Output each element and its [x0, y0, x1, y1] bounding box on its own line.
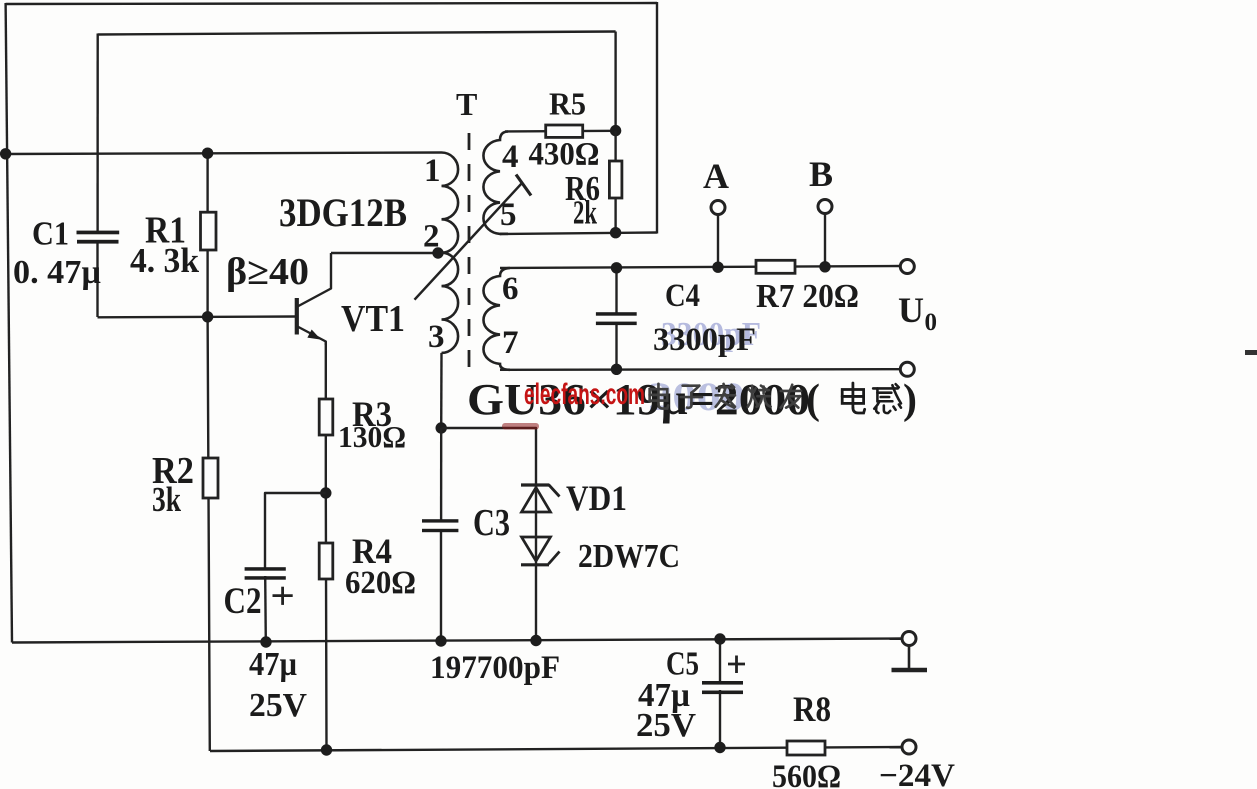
- node emitter/C2 junction: [320, 487, 331, 498]
- svg-text:R5: R5: [549, 86, 586, 122]
- adjustable core arrow: [415, 183, 522, 299]
- capacitor C5: [719, 639, 721, 682]
- svg-text:0: 0: [925, 309, 938, 336]
- terminal U0 bottom: [900, 362, 914, 376]
- label plus C2: [273, 594, 293, 597]
- transformer secondary winding pins 6-7: [483, 268, 510, 370]
- svg-text:25V: 25V: [636, 707, 696, 744]
- resistor R1: [201, 212, 217, 250]
- node R1 top: [202, 148, 213, 159]
- node C4 top: [611, 262, 622, 273]
- svg-text:0. 47µ: 0. 47µ: [13, 254, 101, 291]
- capacitor C2: [245, 567, 286, 571]
- wire outer loop right edge: [656, 2, 658, 234]
- capacitor C4: [615, 267, 617, 313]
- node C3 bottom: [435, 635, 446, 646]
- zener diode VD1 bottom: [522, 537, 551, 561]
- wire pin4 to R5 to inner frame: [505, 130, 616, 133]
- wire C3 branch: [440, 428, 443, 520]
- resistor R2: [203, 458, 218, 498]
- transformer core dashed line: [468, 133, 471, 371]
- svg-text:430Ω: 430Ω: [529, 137, 600, 173]
- svg-text:(: (: [806, 377, 820, 423]
- wire pin6 output top rail: [500, 266, 901, 268]
- svg-text:): ): [903, 377, 917, 423]
- node R6 bottom: [610, 227, 621, 238]
- svg-text:C1: C1: [32, 216, 69, 253]
- svg-text:4. 3k: 4. 3k: [130, 241, 200, 280]
- node R4 bottom: [321, 744, 332, 755]
- svg-text:A: A: [703, 156, 729, 196]
- node pin3 branch: [436, 422, 447, 433]
- svg-text:VD1: VD1: [566, 478, 627, 518]
- svg-text:2: 2: [423, 219, 440, 255]
- capacitor C3: [422, 519, 458, 522]
- resistor R3: [319, 399, 333, 435]
- terminal A: [711, 201, 725, 215]
- svg-text:1: 1: [424, 153, 441, 189]
- svg-text:620Ω: 620Ω: [345, 565, 416, 601]
- zener diode VD1 top: [521, 483, 549, 486]
- svg-text:R8: R8: [793, 689, 831, 729]
- node R5/R6 junction: [610, 125, 621, 136]
- wire -24V rail: [210, 747, 903, 751]
- svg-text:β≥40: β≥40: [226, 251, 309, 293]
- wire inner feedback right edge: [614, 32, 616, 132]
- resistor R7: [756, 260, 795, 273]
- wire VD1 branch: [441, 428, 536, 641]
- svg-text:197700pF: 197700pF: [430, 650, 560, 686]
- wire inner feedback left edge (to C1): [96, 34, 98, 232]
- wire base rail: [98, 315, 297, 318]
- wire outer loop left edge: [6, 3, 12, 643]
- svg-text:3300pF: 3300pF: [653, 322, 756, 358]
- scan artifact right edge: [1245, 350, 1257, 355]
- wire pin5 to outer frame: [500, 233, 657, 235]
- svg-text:47µ: 47µ: [249, 646, 297, 683]
- transistor VT1: [295, 298, 299, 335]
- svg-text:VT1: VT1: [341, 298, 405, 340]
- transformer T primary winding pins 1-2-3: [442, 153, 459, 353]
- svg-text:U: U: [898, 290, 924, 330]
- resistor R4: [319, 543, 333, 579]
- label gan (CJK): [873, 384, 901, 413]
- svg-text:7: 7: [502, 325, 519, 361]
- svg-text:6: 6: [502, 271, 519, 307]
- svg-text:4: 4: [502, 139, 519, 175]
- resistor R8: [787, 741, 825, 755]
- terminal U0 top: [900, 260, 914, 274]
- node pin2 tap: [432, 247, 443, 258]
- capacitor C1: [77, 231, 120, 235]
- terminal B: [818, 200, 832, 214]
- resistor R6: [609, 161, 622, 198]
- svg-text:3: 3: [428, 319, 445, 355]
- resistor R5: [546, 125, 583, 137]
- svg-text:T: T: [456, 86, 477, 122]
- transformer secondary winding pins 4-5: [483, 132, 508, 234]
- wire R6 branch: [614, 131, 616, 233]
- svg-text:3k: 3k: [152, 480, 181, 519]
- node VD1 bottom: [530, 635, 541, 646]
- svg-text:C2: C2: [224, 581, 262, 622]
- svg-text:−24V: −24V: [879, 758, 955, 789]
- wire R1/R2 vertical branch: [208, 153, 210, 751]
- svg-text:C4: C4: [665, 278, 700, 314]
- wire supply rail to transformer pin 1: [6, 153, 442, 155]
- svg-text:R7 20Ω: R7 20Ω: [756, 278, 859, 315]
- svg-text:B: B: [809, 154, 833, 194]
- wire emitter branch: [325, 342, 328, 751]
- svg-text:3DG12B: 3DG12B: [279, 190, 407, 235]
- svg-text:elecfans.com: elecfans.com: [524, 378, 645, 411]
- svg-text:560Ω: 560Ω: [772, 759, 841, 789]
- wire pin7 output bottom rail: [500, 368, 900, 371]
- wire C2 branch: [265, 493, 326, 568]
- wire ground rail: [12, 639, 903, 643]
- svg-text:C3: C3: [473, 502, 510, 544]
- terminal -24V: [902, 740, 916, 754]
- node left rail junction: [0, 148, 11, 159]
- wire collector to pin 2: [331, 252, 442, 254]
- node C2 bottom: [260, 636, 271, 647]
- node base junction: [202, 311, 213, 322]
- ground symbol: [908, 646, 911, 669]
- svg-text:25V: 25V: [249, 687, 307, 724]
- label dian (CJK): [842, 383, 864, 413]
- svg-text:2k: 2k: [573, 195, 597, 232]
- wire outer loop top edge: [6, 3, 657, 4]
- node C4 bottom: [611, 364, 622, 375]
- red smudge artifact: [502, 423, 539, 430]
- watermark grey CJK dianzifashaoyou: [650, 384, 668, 409]
- svg-text:2DW7C: 2DW7C: [578, 538, 680, 575]
- svg-text:130Ω: 130Ω: [338, 419, 406, 454]
- terminal ground: [902, 632, 916, 646]
- label plus C5: [728, 663, 745, 666]
- wire inner feedback top edge: [98, 32, 616, 35]
